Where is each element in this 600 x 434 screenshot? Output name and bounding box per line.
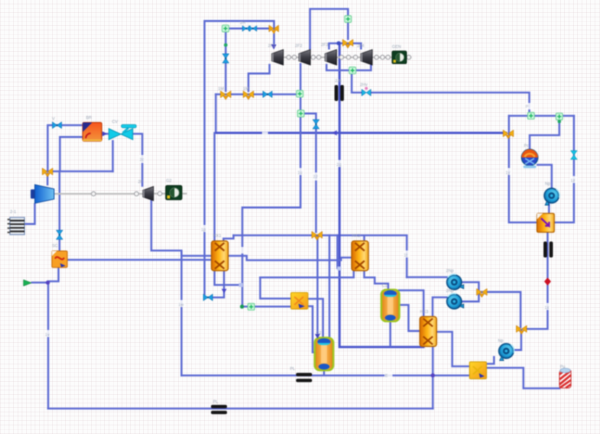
wire turbine T2 drain vertical — [300, 64, 302, 132]
boiler furnace A — [83, 123, 102, 142]
wire recirc header y171.3 — [46, 170, 113, 172]
wire outer loop left/top to turbine T1 — [205, 21, 275, 294]
tee T7 right header — [503, 130, 513, 139]
wire superheater C bottom to node — [48, 268, 59, 282]
orange tee TV2 — [343, 39, 353, 48]
junction dot J2 — [431, 373, 435, 377]
wire y235 down to drum C2 top-right — [328, 235, 330, 338]
svg-text:1z: 1z — [571, 178, 575, 183]
wire drum C1 top to HX3 top-left — [399, 290, 424, 315]
orange tee/valve TV1 — [269, 25, 279, 34]
wire cyan valve bottom leg — [112, 141, 114, 171]
svg-text:PL: PL — [213, 399, 219, 404]
svg-text:2F3: 2F3 — [321, 42, 329, 47]
wire x181.5 down — [181, 252, 183, 375]
svg-text:2-1: 2-1 — [10, 209, 17, 214]
svg-text:G2: G2 — [166, 178, 172, 183]
valve V1a top row — [242, 26, 250, 32]
wire turbine T1 drain — [248, 65, 269, 91]
junction dot J3 — [46, 281, 50, 285]
pump P5 — [499, 344, 514, 361]
sensor S1 — [222, 25, 229, 32]
green dot N2 — [558, 120, 561, 123]
wire tee row y43 — [329, 43, 361, 48]
wire tee down to drum C2 — [317, 237, 319, 336]
svg-text:2F: 2F — [138, 179, 143, 184]
pump P4 — [447, 294, 464, 309]
wire HX2 right jog to HX4 left — [229, 256, 352, 260]
wire drum C1 bottom to y347 — [389, 322, 391, 346]
wire node down to bottom main — [47, 283, 49, 409]
wire drain down-left loop to green sensor line — [242, 133, 300, 305]
steam dryer bars D1 — [335, 85, 344, 101]
svg-text:Np: Np — [498, 338, 504, 343]
crossing marker M1 — [337, 267, 341, 271]
wire HX4 top to y236 — [363, 236, 365, 242]
sensor S4 on crossover — [345, 16, 352, 23]
sensor S2 green cross — [296, 90, 303, 97]
wire heater B right jog to drum C2 top — [308, 299, 323, 337]
flow arrow a3 — [315, 334, 320, 339]
bars D3 horizontal — [296, 373, 312, 382]
wire HX2 bottom-left drain — [215, 271, 242, 285]
shaft feed pump train — [55, 193, 188, 195]
shaft turbine train — [284, 56, 412, 58]
flow arrow a2 — [222, 289, 227, 294]
wire long vertical x339.5 to HX3 bottom — [340, 44, 424, 348]
HX3 — [420, 317, 437, 347]
flow arrow a1 — [271, 45, 276, 50]
svg-text:2c: 2c — [140, 157, 144, 162]
svg-text:V: V — [52, 116, 55, 121]
wire boiler recirc left — [60, 137, 83, 170]
wire HX2 top-left feed — [214, 133, 216, 241]
tee T2 — [243, 91, 253, 100]
radiator/condenser — [7, 217, 24, 234]
wire valve V8 outlet up to HX2 — [213, 271, 225, 297]
wire cyan valve to turbine T5 — [134, 134, 142, 186]
wire HX4 bottom staircase to drum C1 — [364, 271, 388, 290]
wire boiler feed top — [48, 125, 83, 169]
wire right header y115.8 — [509, 115, 574, 117]
heater B small — [291, 293, 308, 310]
sensor S5 bypass — [349, 67, 356, 74]
svg-text:SC: SC — [52, 243, 58, 248]
wire fan down to radiator — [25, 204, 35, 224]
svg-text:2F2: 2F2 — [295, 43, 303, 48]
wire header drop to heater B left — [260, 278, 290, 299]
svg-text:CV: CV — [112, 119, 118, 124]
valve V9 — [52, 122, 61, 129]
flow arrow a5 — [332, 130, 337, 135]
svg-text:Pu: Pu — [560, 364, 566, 369]
wire boiler economizer line y259.8 — [68, 259, 212, 261]
drum C1 — [381, 290, 399, 322]
wire heater F bottom chain — [547, 233, 549, 278]
fan/feed pump blue — [31, 185, 55, 204]
wire header y235.3 — [234, 234, 407, 236]
svg-text:1p: 1p — [201, 227, 206, 232]
turbine T2 — [299, 50, 311, 65]
drum C2 — [315, 338, 334, 371]
wire drum C2 bottom stub — [323, 371, 325, 375]
wire gap labels — [45, 103, 578, 379]
wire pump P3 feed — [407, 276, 447, 278]
turbine T5 — [143, 187, 154, 201]
wire pump P5 outlet to heater D — [487, 357, 494, 364]
svg-text:Np: Np — [545, 181, 551, 186]
red dot valve — [544, 278, 551, 286]
svg-text:HX3: HX3 — [420, 309, 429, 314]
wire bottom main y408.6 — [48, 408, 433, 410]
wire sensor line into heater B — [242, 306, 290, 308]
wire valve x316 down to tee — [315, 129, 317, 233]
svg-text:2Js: 2Js — [335, 78, 342, 83]
wire turbine T5 outlet to HX2 left — [151, 201, 211, 256]
wire main header y133 — [216, 132, 506, 134]
sensor S3 green cross — [297, 110, 304, 117]
generator G2 — [166, 186, 182, 200]
wire sensor jog to valve x316 — [304, 114, 317, 120]
wire superheater C feed — [59, 172, 61, 251]
wire bottom header y375.4 — [182, 374, 470, 376]
svg-text:2Np: 2Np — [446, 288, 454, 293]
wire tee T8 down to pump P5 inlet — [514, 330, 521, 350]
valve V3 — [263, 91, 272, 98]
svg-text:2F1: 2F1 — [268, 43, 276, 48]
tee T5f — [42, 168, 52, 177]
wire sensor down to tee1 — [225, 32, 227, 91]
turbine T3 — [325, 50, 337, 65]
wire HX3 bottom down to bottom main — [432, 348, 434, 409]
wire corner x215.8 down — [215, 94, 217, 133]
tee T9 merge — [477, 289, 487, 298]
green dot N1 — [224, 43, 228, 47]
svg-text:E: E — [385, 373, 388, 378]
sensor S7 — [556, 113, 563, 120]
svg-text:BR: BR — [86, 115, 92, 120]
bars D2 vertical — [544, 242, 553, 258]
svg-text:HX2: HX2 — [352, 233, 361, 238]
wire HX3 right loop to heater D left — [437, 332, 469, 367]
wire x508.9 down to heater F left — [509, 116, 537, 223]
valve V1b top row — [249, 26, 257, 32]
svg-text:HX1: HX1 — [213, 233, 222, 238]
source arrow green — [24, 280, 32, 286]
wire source arrow to node — [32, 282, 47, 284]
svg-text:2q: 2q — [337, 162, 342, 167]
green dot N3 — [240, 305, 244, 309]
svg-text:P: P — [526, 104, 529, 109]
bars D4 horizontal — [211, 405, 227, 414]
heater D — [470, 362, 487, 379]
wire valve V6 to right corner — [372, 93, 530, 116]
wire boiler to cyan valve — [102, 133, 108, 135]
wire y236 drop to pump P3 line — [406, 236, 408, 278]
heater F — [537, 213, 554, 232]
wire pumps P3/P4 merge — [462, 282, 479, 301]
svg-text:2F4: 2F4 — [357, 43, 365, 48]
HX2 — [211, 241, 228, 271]
wire pump P1 outlet to pump P2 — [538, 165, 552, 187]
svg-text:1M: 1M — [243, 86, 249, 91]
shaft couplings — [287, 55, 411, 59]
tee T1 — [221, 91, 231, 100]
svg-text:2H: 2H — [240, 20, 245, 25]
wire jog into HX2 top-right — [224, 235, 234, 241]
wire condensate drain left y277.4 — [260, 271, 354, 278]
wire steam crossover y8.9 — [310, 9, 348, 49]
wire merge tee to tee T8 — [480, 292, 521, 327]
crossing marker M2 — [239, 283, 243, 287]
wire x574 down to heater F right — [555, 116, 574, 223]
tee T8 — [516, 326, 526, 335]
wire red dot to tee T8 — [523, 284, 548, 329]
sensor S6 — [528, 112, 535, 119]
valve V8 — [203, 294, 212, 301]
generator G1 — [392, 51, 406, 64]
valve V10 vertical — [56, 230, 63, 239]
svg-text:C1: C1 — [382, 283, 388, 288]
cyan valve V7 vertical — [571, 151, 578, 160]
tee T3 header — [312, 231, 322, 240]
svg-text:GEN: GEN — [392, 44, 401, 49]
wire tee row y94.3 — [216, 93, 297, 95]
wire bypass sensor to valve V6 — [352, 74, 361, 93]
turbine T4 — [361, 50, 373, 65]
svg-text:2J: 2J — [313, 174, 317, 179]
valve V2 vertical — [222, 54, 229, 63]
turbine T1 — [272, 50, 284, 65]
wire tee T5f down to fan — [47, 174, 49, 185]
svg-text:2Hv: 2Hv — [360, 82, 368, 87]
svg-text:Pc: Pc — [524, 143, 529, 148]
wire pump P4 inlet from HX3 top — [433, 297, 447, 315]
wire pump P2 outlet to heater F top — [548, 204, 550, 214]
wire valve row y28.5 — [229, 28, 272, 30]
flow arrow a4 — [102, 131, 107, 136]
valve V6 — [362, 87, 371, 96]
svg-text:1M: 1M — [218, 86, 224, 91]
superheater C — [52, 251, 67, 267]
pump P1 circulating — [522, 149, 538, 168]
svg-text:2Np: 2Np — [446, 268, 454, 273]
wire sensor drop to pump P1 — [530, 118, 560, 149]
svg-text:1u: 1u — [298, 170, 303, 175]
valve V4 vertical — [313, 120, 320, 129]
wire heater B right to drum C2 left — [308, 306, 314, 352]
svg-text:PL: PL — [290, 366, 296, 371]
svg-text:C2: C2 — [316, 330, 322, 335]
HX4 — [352, 241, 369, 271]
pump P3 — [447, 274, 464, 289]
wire drum C1 right to HX3 left — [400, 305, 420, 331]
junction dot J1 — [337, 41, 341, 45]
sensor S8 — [248, 303, 255, 310]
wire stub x337.4 — [336, 235, 338, 268]
sink barrel striped — [559, 368, 571, 388]
pump P2 — [544, 188, 559, 205]
wire turbine T3 bypass — [327, 65, 372, 71]
wire heater D outlet to sink — [488, 368, 560, 389]
cyan control valve CV1 — [109, 125, 137, 140]
